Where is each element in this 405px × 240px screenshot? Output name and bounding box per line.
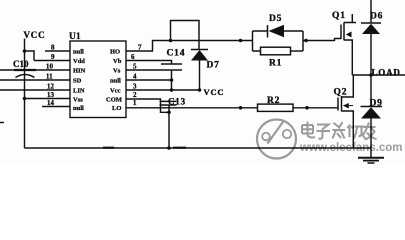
svg-text:null: null <box>73 49 84 56</box>
svg-text:Vss: Vss <box>73 97 83 104</box>
node junction R2 right <box>305 106 309 110</box>
svg-text:3: 3 <box>133 83 137 91</box>
wire pin 3 Vcc <box>126 89 200 91</box>
svg-text:U1: U1 <box>69 32 81 42</box>
svg-text:HIN: HIN <box>73 68 86 75</box>
wire pin 8 stub <box>45 50 70 52</box>
watermark logo circle <box>257 120 296 159</box>
diode D5 <box>267 25 269 38</box>
wire pin 5 Vs <box>126 69 161 71</box>
capacitor C10 arc plate <box>16 75 35 78</box>
wire pin 10 HIN input <box>0 69 70 71</box>
svg-text:2: 2 <box>133 91 137 99</box>
wire R2 leads <box>241 107 339 109</box>
node junction C13 ground <box>167 146 171 150</box>
svg-text:LO: LO <box>112 105 121 112</box>
IC U1 labels <box>13 32 142 112</box>
capacitor C10 straight plate merged on HIN line <box>14 69 36 71</box>
capacitor C13 <box>160 100 177 102</box>
wire bottom ground rail <box>25 147 372 149</box>
svg-text:www.elecfans.com: www.elecfans.com <box>299 142 402 154</box>
svg-text:Vcc: Vcc <box>110 88 121 95</box>
node junction D5R1 left <box>239 39 243 43</box>
svg-text:13: 13 <box>47 91 55 99</box>
svg-text:C10: C10 <box>13 59 29 69</box>
watermark chinese text <box>302 122 377 140</box>
wire pin 4 stub <box>126 79 172 81</box>
wire VCC vertical rail <box>24 39 26 149</box>
node junction D5R1 right <box>304 39 308 43</box>
noise tick left edge <box>0 122 4 124</box>
watermark group <box>257 120 402 159</box>
wire loop to D7 cathode <box>171 21 200 50</box>
svg-text:D7: D7 <box>207 61 220 71</box>
svg-text:D5: D5 <box>269 14 282 24</box>
svg-text:8: 8 <box>51 44 55 52</box>
svg-text:Q1: Q1 <box>332 11 346 21</box>
diode D7 <box>191 49 208 51</box>
node junction VCC rail to pin 13 <box>23 97 27 101</box>
wire pin 7 HO <box>126 41 241 52</box>
svg-text:null: null <box>73 105 84 112</box>
wire C13 to ground rail <box>168 105 170 148</box>
wire pin 14 stub <box>42 106 70 108</box>
svg-text:SD: SD <box>73 78 82 85</box>
wire jog to pin 9 <box>25 51 35 61</box>
svg-text:HO: HO <box>110 49 120 56</box>
svg-text:5: 5 <box>133 63 137 71</box>
svg-text:C13: C13 <box>168 97 186 107</box>
svg-text:LOAD: LOAD <box>372 68 401 78</box>
wire pin 2 COM <box>126 99 169 112</box>
wire C14 bottom stub <box>171 70 173 90</box>
svg-text:D6: D6 <box>370 12 383 22</box>
node junction HO line <box>169 39 173 43</box>
node junction COM <box>167 111 171 115</box>
svg-text:null: null <box>110 78 121 85</box>
svg-text:9: 9 <box>51 53 55 61</box>
svg-text:Vb: Vb <box>113 58 122 65</box>
svg-text:VCC: VCC <box>24 30 46 40</box>
capacitor C14 <box>161 63 182 65</box>
svg-text:6: 6 <box>131 53 135 61</box>
svg-text:R2: R2 <box>267 96 280 106</box>
svg-text:12: 12 <box>47 83 55 91</box>
wire pin 11 SD input <box>0 79 70 81</box>
svg-text:1: 1 <box>133 99 137 107</box>
wire pin 13 Vss <box>25 98 71 100</box>
wire pin 9 <box>34 60 70 62</box>
node junction D7 anode VCC <box>198 88 202 92</box>
op IC U1 box <box>70 41 126 118</box>
svg-text:Vs: Vs <box>113 68 121 75</box>
svg-text:C14: C14 <box>167 49 186 59</box>
wire D5 R1 right branch <box>303 31 341 51</box>
node junction LO R2 left <box>239 106 243 110</box>
ground symbol <box>370 148 372 157</box>
wire D5 R1 left branch <box>241 31 268 51</box>
node junction C14 to VCC line <box>170 88 174 92</box>
svg-text:R1: R1 <box>269 59 282 69</box>
wire pin 1 LO long line <box>126 107 241 109</box>
resistor R1 <box>261 47 291 55</box>
svg-text:Vdd: Vdd <box>73 58 85 65</box>
noise marks on ground rail <box>103 147 186 149</box>
svg-text:COM: COM <box>106 97 122 104</box>
node junction pin4 C14 <box>170 78 174 82</box>
svg-text:Q2: Q2 <box>334 88 348 98</box>
svg-text:14: 14 <box>47 99 55 107</box>
svg-text:LIN: LIN <box>73 88 85 95</box>
resistor R2 <box>258 104 294 111</box>
node LOAD line <box>352 74 405 76</box>
wire pin 12 LIN input <box>0 89 70 91</box>
svg-text:11: 11 <box>46 73 53 81</box>
wire pin 6 Vb <box>126 61 172 65</box>
node junction VCC to pin9 <box>23 49 27 53</box>
svg-text:10: 10 <box>46 63 54 71</box>
svg-text:4: 4 <box>133 73 137 81</box>
svg-text:7: 7 <box>138 44 142 52</box>
svg-text:VCC: VCC <box>204 87 225 97</box>
